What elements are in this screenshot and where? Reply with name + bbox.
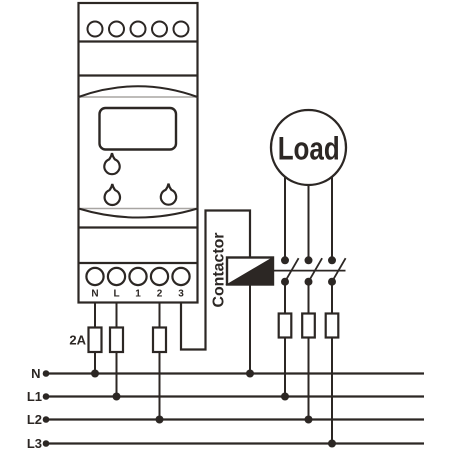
fuse F3 — [153, 328, 166, 353]
timer top terminal circle 5 — [174, 22, 189, 37]
timer face bottom bevel arc — [79, 209, 198, 218]
svg-text:3: 3 — [178, 289, 184, 300]
fuse F4 — [279, 314, 292, 338]
contact 2 of contactor — [305, 256, 323, 285]
timer top terminal circle 3 — [131, 22, 146, 37]
wire from fuse F2 to L1 bus — [116, 352, 118, 397]
junction dot timer terminal 2 wire to L2 bus — [156, 416, 164, 424]
timer bottom terminal cover separation line — [79, 262, 198, 264]
svg-text:2: 2 — [157, 289, 163, 300]
fuse F6 — [326, 314, 339, 338]
timer front panel top line — [79, 74, 198, 76]
timer front panel bottom line — [79, 226, 198, 228]
svg-text:1: 1 — [135, 289, 141, 300]
timer knob button 3 — [161, 184, 176, 205]
junction dot load phase 3 to L3 bus — [328, 440, 336, 448]
N bus left terminal dot — [43, 370, 50, 377]
wire from timer terminal 3 around label box to contactor coil — [181, 211, 250, 350]
timer U1 body outline — [79, 3, 198, 303]
fuse F2 — [110, 328, 123, 353]
junction dot timer N wire to N bus — [91, 370, 99, 378]
L3 bus line — [49, 442, 424, 444]
junction dot load phase 1 to L1 bus — [281, 393, 289, 401]
timer face bottom bevel shadow line — [79, 208, 198, 210]
wire contact 2 to fuse F5 — [308, 282, 310, 314]
timer bottom terminal 2 circle — [151, 268, 168, 285]
L1 bus left terminal dot — [43, 393, 50, 400]
timer bottom terminal L circle — [108, 268, 125, 285]
wire fuse F4 to L1 bus — [284, 338, 286, 397]
wire from coil K1 bottom to N bus — [249, 285, 251, 374]
svg-text:L2: L2 — [27, 412, 42, 427]
wire fuse F6 to L3 bus — [331, 338, 333, 444]
timer top terminal circle 2 — [109, 22, 124, 37]
contactor coil K1 — [227, 258, 273, 285]
timer top terminal cover separation line — [79, 40, 198, 42]
timer bottom terminal 3 circle — [172, 268, 189, 285]
svg-text:Contactor: Contactor — [211, 233, 228, 308]
svg-text:2A: 2A — [69, 333, 86, 348]
timer face top bevel shadow line — [79, 96, 198, 98]
wire from fuse F1 to N bus — [94, 352, 96, 374]
timer top terminal circle 4 — [152, 22, 167, 37]
timer LCD display — [100, 108, 177, 150]
timer bottom terminal N circle — [86, 268, 103, 285]
svg-text:L1: L1 — [27, 389, 42, 404]
wire from timer terminal 2 down to fuse F3 — [159, 303, 161, 328]
timer face top bevel arc — [79, 86, 198, 97]
wire from fuse F3 to L2 bus — [159, 352, 161, 420]
wire load phase 1 to contact 1 — [284, 177, 286, 260]
L3 bus left terminal dot — [43, 440, 50, 447]
L2 bus left terminal dot — [43, 416, 50, 423]
timer top terminal circle 1 — [88, 22, 103, 37]
wire contact 1 to fuse F4 — [284, 282, 286, 314]
wire fuse F5 to L2 bus — [308, 338, 310, 420]
contact 3 of contactor — [328, 256, 346, 285]
svg-text:N: N — [91, 289, 98, 300]
wire from timer terminal L down to fuse F2 — [116, 303, 118, 328]
wire contact 3 to fuse F6 — [331, 282, 333, 314]
N bus line — [49, 372, 424, 374]
junction dot coil to N bus — [246, 370, 254, 378]
wire load phase 2 to contact 2 — [308, 185, 310, 260]
svg-text:N: N — [31, 366, 40, 381]
contact 1 of contactor — [281, 256, 299, 285]
svg-text:Load: Load — [278, 131, 340, 167]
timer knob button 1 — [104, 153, 119, 174]
L1 bus line — [49, 395, 424, 397]
svg-text:L: L — [113, 289, 119, 300]
wire from timer terminal N down to fuse F1 — [94, 303, 96, 328]
wire load phase 3 to contact 3 — [331, 177, 333, 260]
L2 bus line — [49, 418, 424, 420]
load M1 circle — [271, 110, 346, 185]
contactor mechanical linkage line — [273, 270, 346, 272]
fuse F1 2A — [89, 328, 102, 353]
timer knob button 2 — [105, 184, 120, 205]
junction dot load phase 2 to L2 bus — [305, 416, 313, 424]
svg-text:L3: L3 — [27, 436, 42, 450]
junction dot timer L wire to L1 bus — [113, 393, 121, 401]
fuse F5 — [302, 314, 315, 338]
timer bottom terminal 1 circle — [129, 268, 146, 285]
